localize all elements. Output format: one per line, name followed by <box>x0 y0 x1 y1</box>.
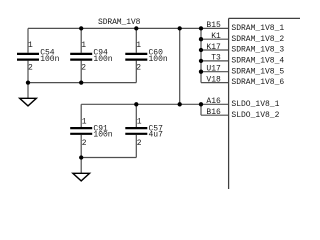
svg-text:B15: B15 <box>206 21 221 30</box>
capacitor C54 <box>17 54 39 60</box>
node rail/vert1 <box>178 26 182 30</box>
wire pin U17 <box>201 71 229 73</box>
wire C91 bottom lead <box>80 135 82 158</box>
wire C57 top lead <box>135 104 137 127</box>
svg-text:K1: K1 <box>211 32 221 41</box>
svg-text:100n: 100n <box>149 55 168 64</box>
wire C94 bottom lead <box>80 61 82 83</box>
wire pin T3 <box>201 60 229 62</box>
svg-text:2: 2 <box>81 64 86 73</box>
wire vertical to A16 row <box>179 28 181 104</box>
svg-text:2: 2 <box>136 64 141 73</box>
svg-text:1: 1 <box>82 118 87 127</box>
ground 2 <box>73 173 90 181</box>
svg-text:U17: U17 <box>206 65 221 74</box>
wire pin K1 <box>201 38 229 40</box>
svg-text:2: 2 <box>28 64 33 73</box>
node bus/K17 <box>199 48 203 52</box>
IC box outline <box>229 18 300 189</box>
svg-text:V18: V18 <box>206 75 221 84</box>
node bus/K1 <box>199 37 203 41</box>
svg-text:100n: 100n <box>93 131 112 140</box>
capacitor C57 <box>125 128 147 134</box>
wire SDRAM_1V8 top rail <box>28 27 229 29</box>
svg-text:SLDO_1V8_2: SLDO_1V8_2 <box>231 111 279 120</box>
wire C54 top lead <box>27 28 29 52</box>
wire bus vertical B15..V18 <box>200 28 202 82</box>
wire C60 top lead <box>135 28 137 52</box>
wire C91 top lead <box>80 104 82 127</box>
wire B16 branch vertical <box>200 104 202 115</box>
node bus/U17 <box>199 70 203 74</box>
svg-text:T3: T3 <box>211 54 221 63</box>
svg-text:SDRAM_1V8_4: SDRAM_1V8_4 <box>231 57 284 66</box>
svg-text:2: 2 <box>82 139 87 148</box>
wire pin V18 <box>201 82 229 84</box>
wire A16 row / group2 top rail <box>81 103 228 105</box>
wire pin K17 <box>201 49 229 51</box>
node bot2/gnd <box>79 155 83 159</box>
node A16/B16 <box>199 102 203 106</box>
svg-text:K17: K17 <box>206 43 221 52</box>
node bot1/C94 <box>79 80 83 84</box>
capacitor C94 <box>70 54 92 60</box>
svg-text:4u7: 4u7 <box>149 131 164 140</box>
wire C57 bottom lead <box>135 135 137 158</box>
node rail/bus <box>199 26 203 30</box>
svg-text:1: 1 <box>136 41 141 50</box>
svg-text:1: 1 <box>28 41 33 50</box>
svg-text:1: 1 <box>81 41 86 50</box>
svg-text:SDRAM_1V8_3: SDRAM_1V8_3 <box>231 46 284 55</box>
svg-text:SDRAM_1V8_1: SDRAM_1V8_1 <box>231 24 284 33</box>
svg-text:2: 2 <box>137 139 142 148</box>
node bot1/gnd <box>26 80 30 84</box>
node rail/C94 <box>79 26 83 30</box>
wire C54 bottom lead <box>27 61 29 83</box>
svg-text:1: 1 <box>137 118 142 127</box>
svg-text:SDRAM_1V8: SDRAM_1V8 <box>98 18 141 27</box>
ground 1 <box>20 98 37 106</box>
svg-text:100n: 100n <box>40 55 59 64</box>
svg-text:SDRAM_1V8_5: SDRAM_1V8_5 <box>231 67 284 76</box>
wire ground2 stem <box>80 158 82 174</box>
wire C94 top lead <box>80 28 82 52</box>
wire group1 bottom rail <box>28 82 136 84</box>
svg-text:A16: A16 <box>206 97 221 106</box>
wire pin B16 <box>201 114 229 116</box>
node A16/C57 <box>134 102 138 106</box>
capacitor C60 <box>125 54 147 60</box>
node A16/vert1 <box>178 102 182 106</box>
svg-text:SDRAM_1V8_2: SDRAM_1V8_2 <box>231 35 284 44</box>
capacitor C91 <box>70 128 92 134</box>
svg-text:SDRAM_1V8_6: SDRAM_1V8_6 <box>231 78 284 87</box>
svg-text:SLDO_1V8_1: SLDO_1V8_1 <box>231 100 279 109</box>
node rail/C60 <box>134 26 138 30</box>
svg-text:B16: B16 <box>206 108 221 117</box>
wire group2 bottom rail <box>81 157 136 159</box>
svg-text:100n: 100n <box>93 55 112 64</box>
wire ground1 stem <box>27 83 29 99</box>
wire C60 bottom lead <box>135 61 137 83</box>
node bus/T3 <box>199 59 203 63</box>
